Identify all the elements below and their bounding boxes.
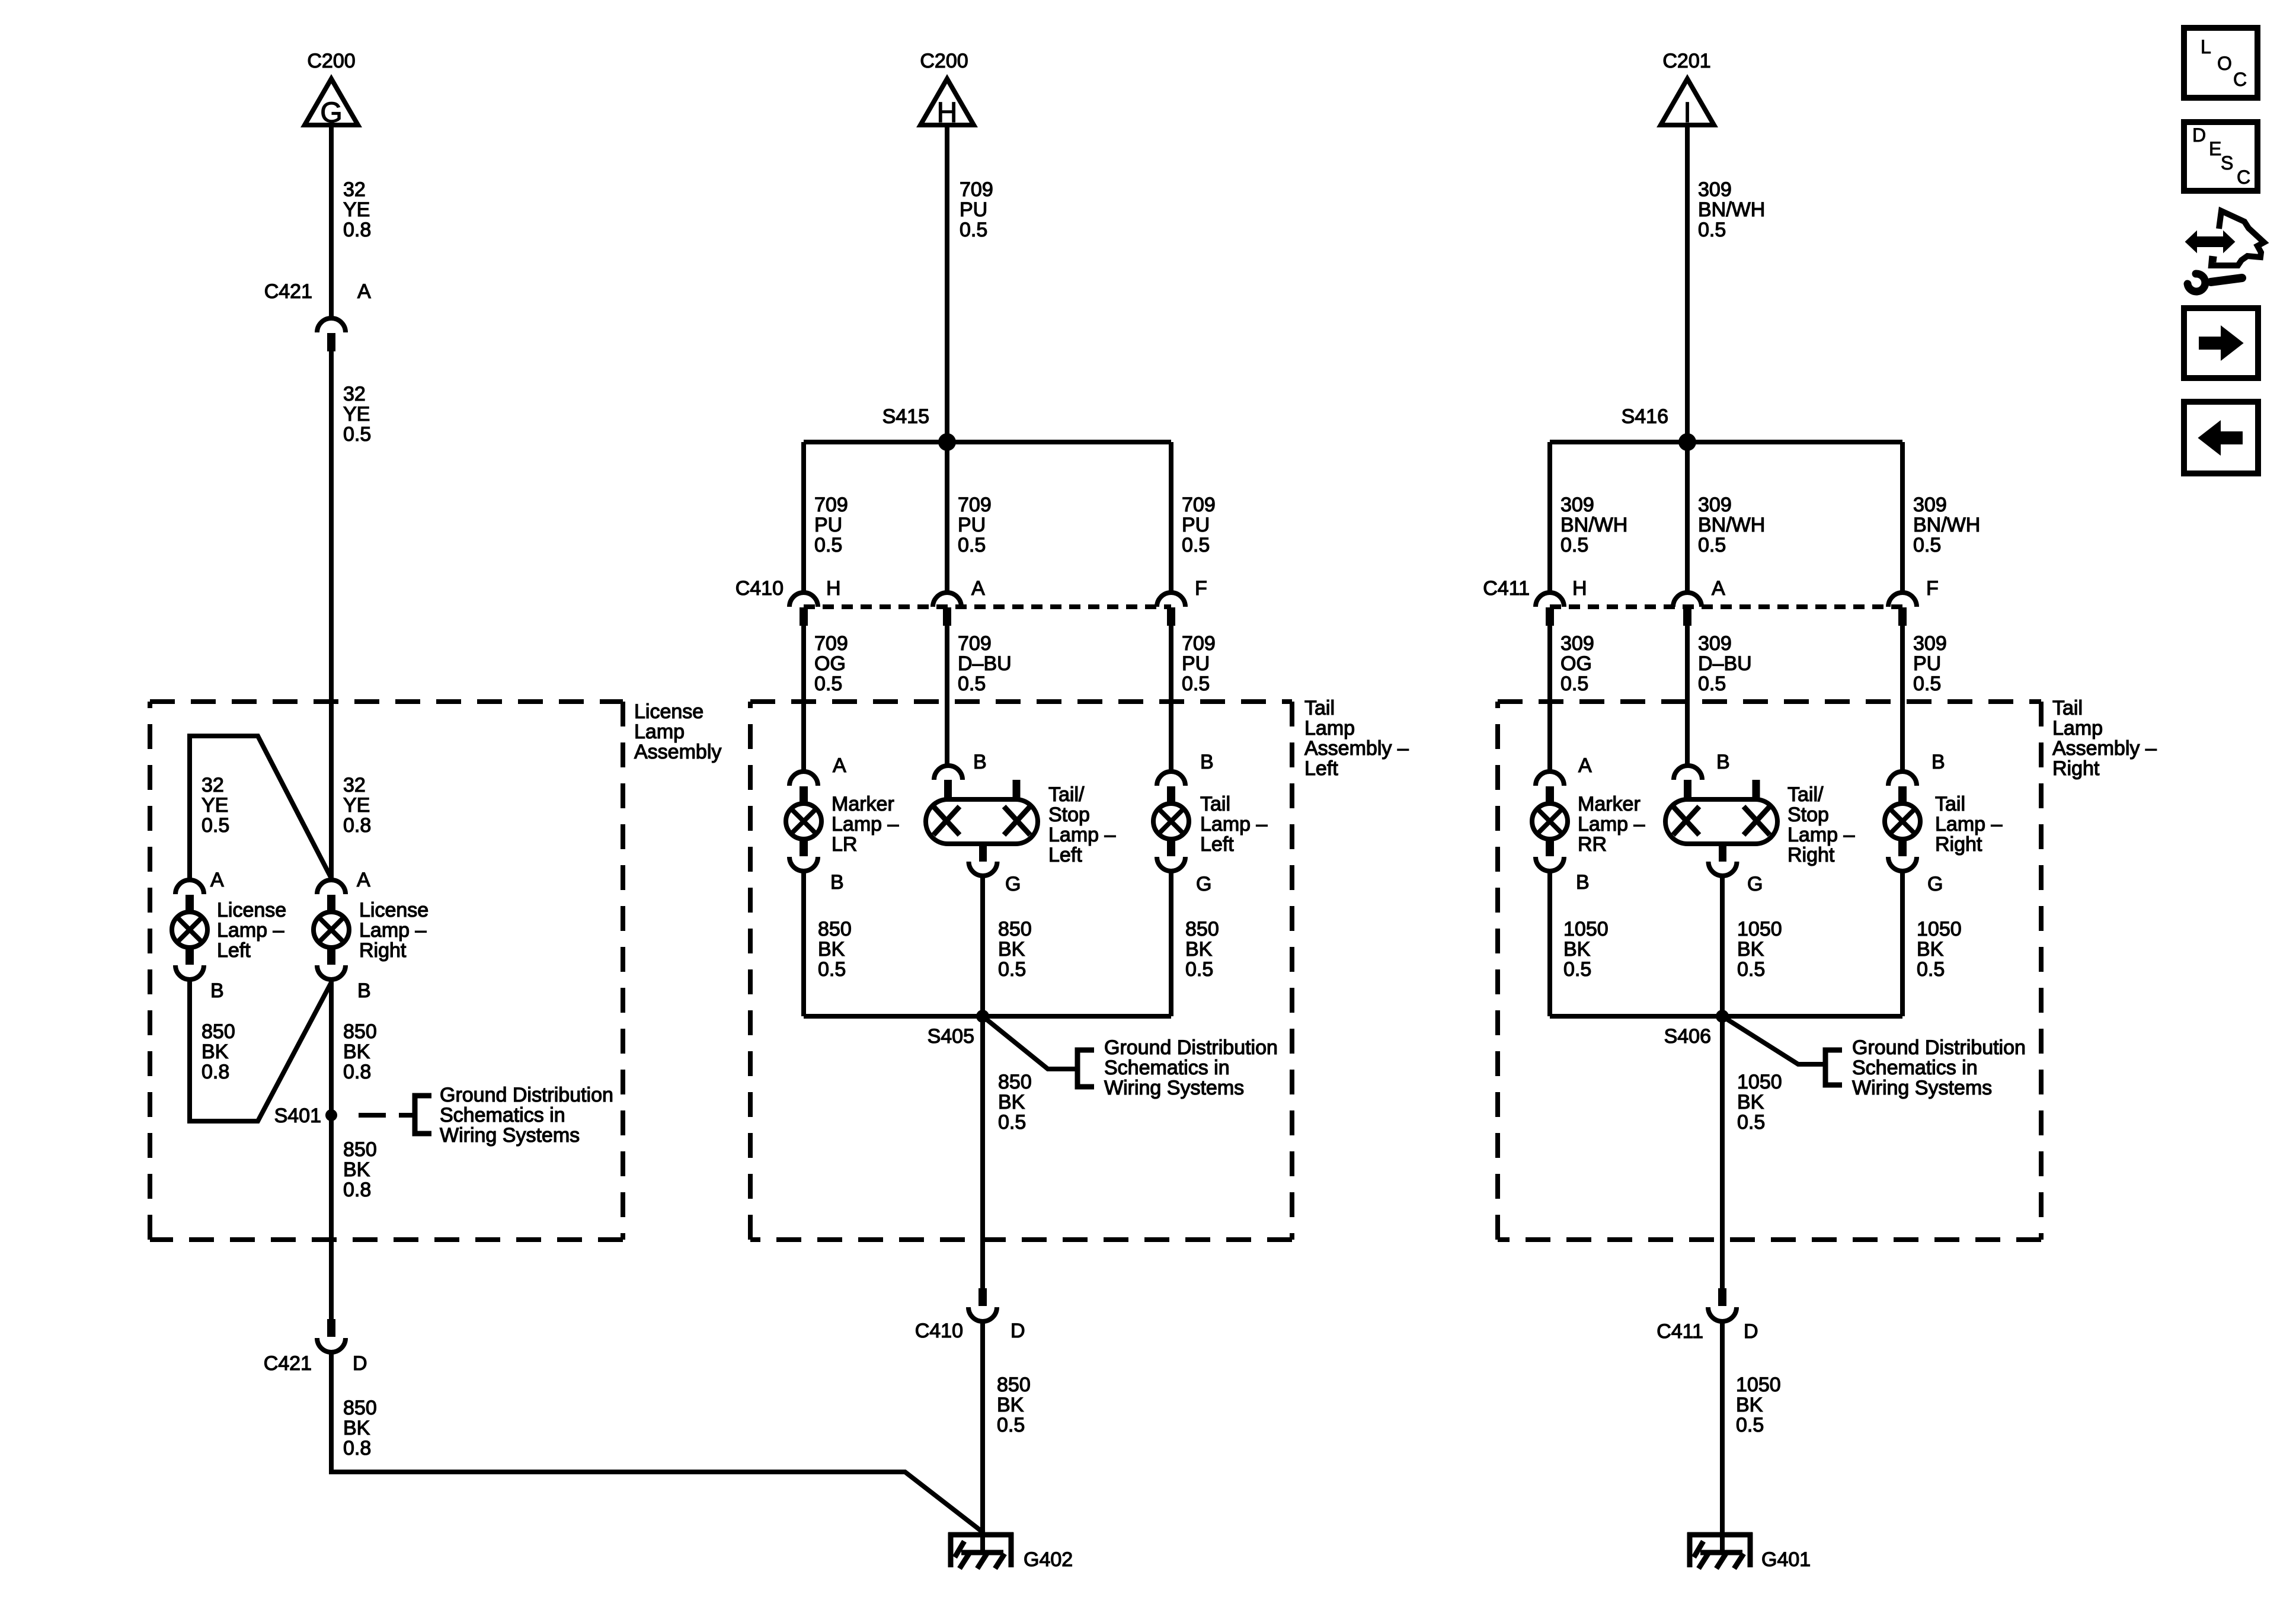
- svg-text:850: 850: [818, 918, 852, 940]
- svg-text:H: H: [826, 577, 841, 600]
- svg-text:Assembly –: Assembly –: [2052, 737, 2157, 760]
- svg-text:0.8: 0.8: [202, 1061, 229, 1083]
- svg-text:Ground Distribution: Ground Distribution: [1104, 1036, 1278, 1059]
- dashed box Tail Lamp Assembly - Left: [750, 702, 1292, 1240]
- svg-text:PU: PU: [1913, 652, 1941, 675]
- svg-text:0.5: 0.5: [343, 423, 371, 446]
- svg-text:0.8: 0.8: [343, 219, 371, 241]
- wire from license lamp left pin B: [190, 980, 331, 1121]
- svg-text:1050: 1050: [1563, 918, 1609, 940]
- svg-text:F: F: [1195, 577, 1207, 600]
- svg-text:B: B: [973, 751, 987, 773]
- svg-text:C: C: [2233, 69, 2247, 90]
- wire 709 PU 0.5 branch F: [1169, 442, 1173, 593]
- svg-text:G: G: [1196, 873, 1211, 895]
- connector C201 cavity I (off-page triangle): [1661, 79, 1714, 129]
- svg-text:Left: Left: [1304, 757, 1338, 780]
- splice S401: [325, 1109, 337, 1121]
- svg-text:B: B: [1200, 751, 1214, 773]
- svg-text:709: 709: [958, 632, 992, 655]
- svg-text:Left: Left: [217, 939, 251, 962]
- svg-text:Lamp –: Lamp –: [217, 919, 284, 942]
- label Tail/Stop Lamp - Left: [1048, 783, 1115, 866]
- svg-text:0.5: 0.5: [1737, 1111, 1765, 1134]
- svg-text:Schematics in: Schematics in: [1104, 1057, 1230, 1079]
- svg-text:S416: S416: [1622, 405, 1668, 428]
- wire 309 BN/WH 0.5 branch F: [1900, 442, 1905, 593]
- svg-text:1050: 1050: [1737, 918, 1782, 940]
- svg-text:C200: C200: [307, 50, 355, 72]
- label Tail Lamp - Left: [1200, 793, 1267, 856]
- svg-text:309: 309: [1913, 632, 1947, 655]
- svg-text:0.5: 0.5: [1913, 673, 1941, 695]
- svg-text:309: 309: [1698, 632, 1732, 655]
- svg-text:0.8: 0.8: [343, 1437, 371, 1459]
- svg-text:L: L: [2201, 36, 2211, 57]
- svg-text:BK: BK: [1736, 1394, 1763, 1416]
- svg-text:B: B: [210, 980, 224, 1002]
- wire 1050 BK 0.5 to C411 D: [1720, 1016, 1725, 1288]
- svg-text:850: 850: [343, 1397, 377, 1419]
- svg-text:H: H: [937, 97, 958, 129]
- svg-text:0.5: 0.5: [1560, 673, 1588, 695]
- svg-text:0.5: 0.5: [1563, 958, 1591, 981]
- svg-text:Marker: Marker: [832, 793, 894, 815]
- wire label 850 BK 0.8 (right branch): [343, 1020, 377, 1083]
- svg-text:PU: PU: [814, 514, 842, 536]
- svg-text:C410: C410: [915, 1320, 963, 1342]
- svg-text:709: 709: [814, 632, 848, 655]
- svg-text:0.5: 0.5: [1913, 534, 1941, 556]
- svg-text:Stop: Stop: [1048, 804, 1090, 826]
- wire 709 D-BU 0.5: [945, 626, 949, 766]
- svg-text:BK: BK: [343, 1417, 370, 1439]
- wire label 850 BK 0.5 (tail/stop): [998, 918, 1032, 981]
- svg-text:309: 309: [1913, 494, 1947, 516]
- svg-text:709: 709: [960, 178, 993, 201]
- svg-text:Wiring Systems: Wiring Systems: [1852, 1077, 1992, 1099]
- svg-text:Lamp –: Lamp –: [1200, 813, 1267, 836]
- wire 850 BK 0.5 from tail lamp: [1169, 871, 1173, 1016]
- wire 850 BK 0.5 from marker lamp: [801, 871, 806, 1016]
- svg-text:0.8: 0.8: [343, 1061, 371, 1083]
- wire 309 OG 0.5: [1547, 626, 1552, 772]
- svg-text:PU: PU: [1182, 514, 1210, 536]
- lamp Tail/Stop Lamp - Right (dual filament): [1665, 766, 1777, 876]
- svg-text:G: G: [1747, 873, 1763, 895]
- svg-text:850: 850: [202, 1020, 235, 1043]
- svg-text:709: 709: [958, 494, 992, 516]
- connector C411 pin D: [1708, 1288, 1737, 1321]
- svg-text:BK: BK: [1737, 1091, 1764, 1113]
- wire 709 PU 0.5: [1169, 626, 1173, 772]
- splice S416: [1678, 433, 1696, 451]
- svg-text:Lamp –: Lamp –: [359, 919, 426, 942]
- svg-text:OG: OG: [814, 652, 846, 675]
- svg-text:B: B: [830, 871, 844, 894]
- svg-text:850: 850: [1185, 918, 1219, 940]
- wire label 1050 BK 0.5 (tail/stop right): [1737, 918, 1782, 981]
- svg-text:C421: C421: [264, 280, 312, 303]
- svg-text:0.5: 0.5: [1698, 534, 1726, 556]
- svg-text:D: D: [1011, 1320, 1025, 1342]
- svg-text:Assembly: Assembly: [634, 741, 721, 763]
- svg-text:A: A: [1578, 754, 1592, 777]
- lamp Tail/Stop Lamp - Left (dual filament): [926, 766, 1038, 876]
- svg-text:C410: C410: [736, 577, 784, 600]
- svg-text:0.8: 0.8: [343, 814, 371, 837]
- svg-text:Wiring Systems: Wiring Systems: [1104, 1077, 1244, 1099]
- ground G402: [948, 1532, 1013, 1569]
- wire 309 BN/WH 0.5 from C201 I: [1685, 125, 1690, 442]
- svg-text:YE: YE: [343, 199, 370, 221]
- wire branch to license lamp left: [190, 736, 331, 881]
- wire 850 BK 0.5 from tail/stop lamp: [980, 876, 985, 1016]
- svg-text:G: G: [320, 97, 342, 129]
- wire 850 BK 0.8 through S401: [329, 980, 334, 1320]
- wire 309 BN/WH 0.5 branch A: [1685, 442, 1690, 593]
- icon box DESC: [2184, 122, 2257, 191]
- svg-text:32: 32: [202, 774, 224, 796]
- svg-text:0.5: 0.5: [1185, 958, 1213, 981]
- reference bracket (S406 ground distribution): [1825, 1050, 1842, 1085]
- wire 309 BN/WH 0.5 branch H: [1547, 442, 1552, 593]
- svg-text:BK: BK: [1737, 938, 1764, 961]
- svg-text:BK: BK: [1185, 938, 1213, 961]
- svg-text:709: 709: [1182, 632, 1216, 655]
- wire label 32 YE 0.8 (right branch): [343, 774, 371, 837]
- svg-text:Stop: Stop: [1787, 804, 1829, 826]
- svg-text:C411: C411: [1483, 577, 1530, 600]
- svg-text:0.5: 0.5: [1698, 673, 1726, 695]
- icon shift-and-wrench (diagnostic): [2186, 211, 2264, 292]
- svg-text:0.5: 0.5: [1182, 534, 1210, 556]
- svg-text:S401: S401: [274, 1105, 321, 1127]
- svg-text:BK: BK: [1563, 938, 1591, 961]
- wire label 850 BK 0.5 below C410 D: [997, 1374, 1031, 1436]
- wire label 709 D-BU 0.5: [958, 632, 1012, 695]
- svg-text:309: 309: [1698, 494, 1732, 516]
- wire splice bus S416: [1550, 440, 1902, 444]
- svg-text:License: License: [634, 700, 703, 723]
- svg-text:A: A: [971, 577, 985, 600]
- svg-text:Wiring Systems: Wiring Systems: [440, 1124, 580, 1147]
- svg-text:Tail: Tail: [1200, 793, 1230, 815]
- svg-text:0.5: 0.5: [814, 673, 842, 695]
- svg-text:C200: C200: [920, 50, 968, 72]
- svg-text:B: B: [1716, 751, 1730, 773]
- svg-text:1050: 1050: [1736, 1374, 1781, 1396]
- svg-text:850: 850: [343, 1020, 377, 1043]
- wire label 32 YE 0.8: [343, 178, 371, 241]
- svg-text:Schematics in: Schematics in: [1852, 1057, 1978, 1079]
- wire label 1050 BK 0.5 (tail right): [1917, 918, 1962, 981]
- svg-text:709: 709: [814, 494, 848, 516]
- wire label 309 D-BU 0.5: [1698, 632, 1752, 695]
- dashed box License Lamp Assembly: [150, 702, 623, 1240]
- svg-text:B: B: [357, 980, 371, 1002]
- svg-text:850: 850: [998, 1071, 1032, 1093]
- svg-text:O: O: [2217, 53, 2232, 74]
- svg-text:D–BU: D–BU: [1698, 652, 1752, 675]
- svg-text:0.5: 0.5: [998, 1111, 1026, 1134]
- svg-text:PU: PU: [958, 514, 986, 536]
- connector C200 cavity H (off-page triangle): [920, 79, 974, 129]
- svg-text:PU: PU: [960, 199, 987, 221]
- wire label 309 BN/WH 0.5 (branch A): [1698, 494, 1765, 556]
- wire 32 YE 0.5 down to license lamp right: [329, 351, 334, 880]
- icon box arrow-left: [2184, 402, 2258, 473]
- svg-text:BK: BK: [998, 938, 1025, 961]
- svg-text:D: D: [353, 1352, 367, 1375]
- wire label 309 BN/WH 0.5 (branch H): [1560, 494, 1627, 556]
- svg-text:Tail/: Tail/: [1787, 783, 1824, 806]
- note Ground Distribution Schematics in Wiring Systems (S401): [440, 1084, 613, 1147]
- svg-text:Right: Right: [2052, 757, 2100, 780]
- wire ground bus to S405: [804, 1014, 1171, 1019]
- wire 709 OG 0.5: [801, 626, 806, 772]
- svg-text:Right: Right: [359, 939, 407, 962]
- svg-text:0.5: 0.5: [814, 534, 842, 556]
- wire label 850 BK 0.8 below C421 D: [343, 1397, 377, 1459]
- svg-text:309: 309: [1698, 178, 1732, 201]
- connector C410 pin F: [1157, 593, 1185, 626]
- svg-text:0.5: 0.5: [960, 219, 987, 241]
- label Tail Lamp Assembly - Right: [2052, 697, 2157, 780]
- svg-text:BK: BK: [202, 1041, 229, 1063]
- svg-text:32: 32: [343, 774, 366, 796]
- svg-text:BK: BK: [998, 1091, 1025, 1113]
- wire label 1050 BK 0.5 below S406: [1737, 1071, 1782, 1134]
- wire 32 YE 0.8 from C200 G: [329, 125, 334, 318]
- svg-text:Schematics in: Schematics in: [440, 1104, 565, 1126]
- svg-text:B: B: [1932, 751, 1945, 773]
- wire label 32 YE 0.5: [343, 383, 371, 446]
- svg-text:0.5: 0.5: [1736, 1414, 1764, 1436]
- svg-text:0.5: 0.5: [1698, 219, 1726, 241]
- svg-text:H: H: [1572, 577, 1587, 600]
- wire label 309 PU 0.5: [1913, 632, 1947, 695]
- svg-text:C201: C201: [1662, 50, 1710, 72]
- svg-text:0.5: 0.5: [202, 814, 229, 837]
- wire 309 D-BU 0.5: [1685, 626, 1690, 766]
- svg-text:C411: C411: [1657, 1320, 1703, 1343]
- svg-text:A: A: [1712, 577, 1725, 600]
- svg-text:Tail/: Tail/: [1048, 783, 1085, 806]
- connector C411 pin H: [1536, 593, 1564, 626]
- svg-text:G: G: [1005, 873, 1021, 895]
- svg-text:D: D: [2192, 124, 2206, 146]
- wire 850 BK 0.5 to C410 D: [980, 1016, 985, 1288]
- ground G401: [1687, 1532, 1753, 1569]
- svg-text:License: License: [359, 899, 428, 921]
- connector C200 cavity G (off-page triangle): [305, 79, 358, 129]
- svg-text:D: D: [1744, 1320, 1758, 1343]
- wire 309 PU 0.5: [1900, 626, 1905, 772]
- svg-text:Lamp: Lamp: [1304, 717, 1355, 740]
- wire 709 PU 0.5 from C200 H: [945, 125, 949, 442]
- wire label 850 BK 0.8 below S401: [343, 1138, 377, 1201]
- label License Lamp Assembly: [634, 700, 721, 763]
- wire reference to ground distribution (S406): [1722, 1016, 1823, 1064]
- svg-text:Tail: Tail: [1304, 697, 1335, 719]
- label License Lamp - Right: [359, 899, 428, 962]
- svg-text:G401: G401: [1761, 1548, 1811, 1571]
- svg-text:850: 850: [997, 1374, 1031, 1396]
- wire label 309 BN/WH 0.5 (branch F): [1913, 494, 1980, 556]
- wire label 32 YE 0.5 (left branch): [202, 774, 229, 837]
- svg-text:G: G: [1927, 873, 1943, 895]
- svg-text:BK: BK: [1917, 938, 1944, 961]
- svg-text:PU: PU: [1182, 652, 1210, 675]
- svg-text:Marker: Marker: [1578, 793, 1641, 815]
- label License Lamp - Left: [217, 899, 286, 962]
- svg-text:BK: BK: [818, 938, 845, 961]
- lamp License Lamp - Left: [172, 880, 207, 980]
- svg-text:32: 32: [343, 178, 366, 201]
- svg-text:Right: Right: [1787, 844, 1835, 866]
- wire label 850 BK 0.8 (left branch): [202, 1020, 235, 1083]
- svg-text:709: 709: [1182, 494, 1216, 516]
- label Tail Lamp - Right: [1935, 793, 2002, 856]
- lamp License Lamp - Right: [314, 880, 349, 980]
- wire label 709 PU 0.5 (branch A): [958, 494, 992, 556]
- wire label 309 OG 0.5: [1560, 632, 1594, 695]
- svg-text:0.8: 0.8: [343, 1179, 371, 1201]
- note Ground Distribution Schematics in Wiring Systems (S405): [1104, 1036, 1278, 1099]
- wire reference to ground distribution (S405): [983, 1016, 1075, 1069]
- svg-text:Lamp –: Lamp –: [1787, 824, 1854, 846]
- dashed box Tail Lamp Assembly - Right: [1498, 702, 2041, 1240]
- splice S405: [976, 1010, 989, 1023]
- svg-text:BN/WH: BN/WH: [1913, 514, 1980, 536]
- lamp Marker Lamp - RR: [1532, 772, 1568, 871]
- wire splice bus S415: [804, 440, 1171, 444]
- svg-text:OG: OG: [1560, 652, 1592, 675]
- svg-text:32: 32: [343, 383, 366, 405]
- connector C410 pin A: [933, 593, 961, 626]
- svg-text:Ground Distribution: Ground Distribution: [1852, 1036, 2026, 1059]
- splice S415: [938, 433, 956, 451]
- wire 850 BK 0.5 to G402: [980, 1321, 985, 1551]
- svg-text:0.5: 0.5: [997, 1414, 1025, 1436]
- svg-text:RR: RR: [1578, 833, 1607, 856]
- svg-text:Assembly –: Assembly –: [1304, 737, 1409, 760]
- svg-text:S405: S405: [928, 1025, 974, 1048]
- connector C410 pin D: [968, 1288, 997, 1321]
- svg-text:YE: YE: [343, 403, 370, 425]
- svg-text:YE: YE: [343, 794, 370, 817]
- connector C421 pin D: [317, 1319, 346, 1352]
- svg-text:BN/WH: BN/WH: [1698, 514, 1765, 536]
- svg-text:Tail: Tail: [2052, 697, 2083, 719]
- svg-text:Lamp –: Lamp –: [1935, 813, 2002, 836]
- icon box LOC: [2184, 28, 2257, 98]
- svg-text:License: License: [217, 899, 286, 921]
- svg-text:850: 850: [343, 1138, 377, 1161]
- svg-text:0.5: 0.5: [958, 673, 986, 695]
- svg-text:E: E: [2209, 138, 2221, 159]
- wire 1050 BK 0.5 to G401: [1720, 1321, 1725, 1551]
- splice S406: [1716, 1010, 1729, 1023]
- svg-text:1050: 1050: [1737, 1071, 1782, 1093]
- svg-text:0.5: 0.5: [1182, 673, 1210, 695]
- svg-text:BN/WH: BN/WH: [1560, 514, 1627, 536]
- svg-text:0.5: 0.5: [1917, 958, 1945, 981]
- svg-text:1050: 1050: [1917, 918, 1962, 940]
- svg-text:0.5: 0.5: [1737, 958, 1765, 981]
- svg-text:D–BU: D–BU: [958, 652, 1012, 675]
- wire label 709 PU 0.5 (branch H): [814, 494, 848, 556]
- dashed reference stub from S401: [359, 1113, 412, 1118]
- svg-text:YE: YE: [202, 794, 228, 817]
- svg-text:0.5: 0.5: [958, 534, 986, 556]
- svg-text:G402: G402: [1024, 1548, 1073, 1571]
- svg-text:Lamp: Lamp: [634, 721, 685, 743]
- svg-text:0.5: 0.5: [1560, 534, 1588, 556]
- svg-text:Tail: Tail: [1935, 793, 1965, 815]
- note Ground Distribution Schematics in Wiring Systems (S406): [1852, 1036, 2026, 1099]
- lamp Tail Lamp - Left: [1153, 772, 1189, 871]
- svg-text:A: A: [210, 869, 224, 891]
- dashed connector line C411: [1550, 604, 1902, 609]
- connector C421 pin A: [317, 318, 346, 351]
- svg-text:C: C: [2237, 167, 2250, 188]
- svg-text:Lamp: Lamp: [2052, 717, 2103, 740]
- connector C410 pin H: [789, 593, 818, 626]
- svg-text:Lamp –: Lamp –: [1048, 824, 1115, 846]
- svg-text:Left: Left: [1048, 844, 1082, 866]
- label Marker Lamp - RR: [1578, 793, 1645, 856]
- wire label 850 BK 0.5 (marker): [818, 918, 852, 981]
- reference bracket (S405 ground distribution): [1077, 1050, 1094, 1087]
- svg-text:A: A: [833, 754, 846, 777]
- wire label 1050 BK 0.5 below C411 D: [1736, 1374, 1781, 1436]
- svg-text:BK: BK: [343, 1158, 370, 1181]
- connector C411 pin A: [1673, 593, 1702, 626]
- wire 1050 BK 0.5 from tail lamp right: [1900, 871, 1905, 1016]
- svg-text:S: S: [2221, 152, 2233, 174]
- svg-text:B: B: [1576, 871, 1590, 894]
- wire label 1050 BK 0.5 (marker RR): [1563, 918, 1609, 981]
- lamp Marker Lamp - LR: [786, 772, 821, 871]
- svg-text:S406: S406: [1664, 1025, 1711, 1048]
- svg-text:309: 309: [1560, 632, 1594, 655]
- reference bracket (S401 ground distribution): [415, 1096, 431, 1134]
- label Tail/Stop Lamp - Right: [1787, 783, 1854, 866]
- wire 709 PU 0.5 branch H: [801, 442, 806, 593]
- svg-text:I: I: [1683, 97, 1691, 129]
- svg-text:S415: S415: [882, 405, 929, 428]
- svg-text:Right: Right: [1935, 833, 1982, 856]
- svg-text:F: F: [1926, 577, 1939, 600]
- svg-text:850: 850: [998, 918, 1032, 940]
- svg-text:A: A: [357, 280, 371, 303]
- svg-text:Ground Distribution: Ground Distribution: [440, 1084, 613, 1106]
- svg-text:LR: LR: [832, 833, 857, 856]
- connector C411 pin F: [1888, 593, 1917, 626]
- svg-text:Lamp –: Lamp –: [832, 813, 898, 836]
- svg-text:BK: BK: [997, 1394, 1024, 1416]
- wire 709 PU 0.5 branch A: [945, 442, 949, 593]
- icon box arrow-right: [2184, 308, 2258, 378]
- label Marker Lamp - LR: [832, 793, 898, 856]
- wire label 850 BK 0.5 (tail): [1185, 918, 1219, 981]
- svg-text:A: A: [357, 869, 370, 891]
- wire 1050 BK 0.5 from tail/stop lamp right: [1720, 876, 1725, 1016]
- svg-text:Left: Left: [1200, 833, 1234, 856]
- wire label 709 PU 0.5 (branch F): [1182, 494, 1216, 556]
